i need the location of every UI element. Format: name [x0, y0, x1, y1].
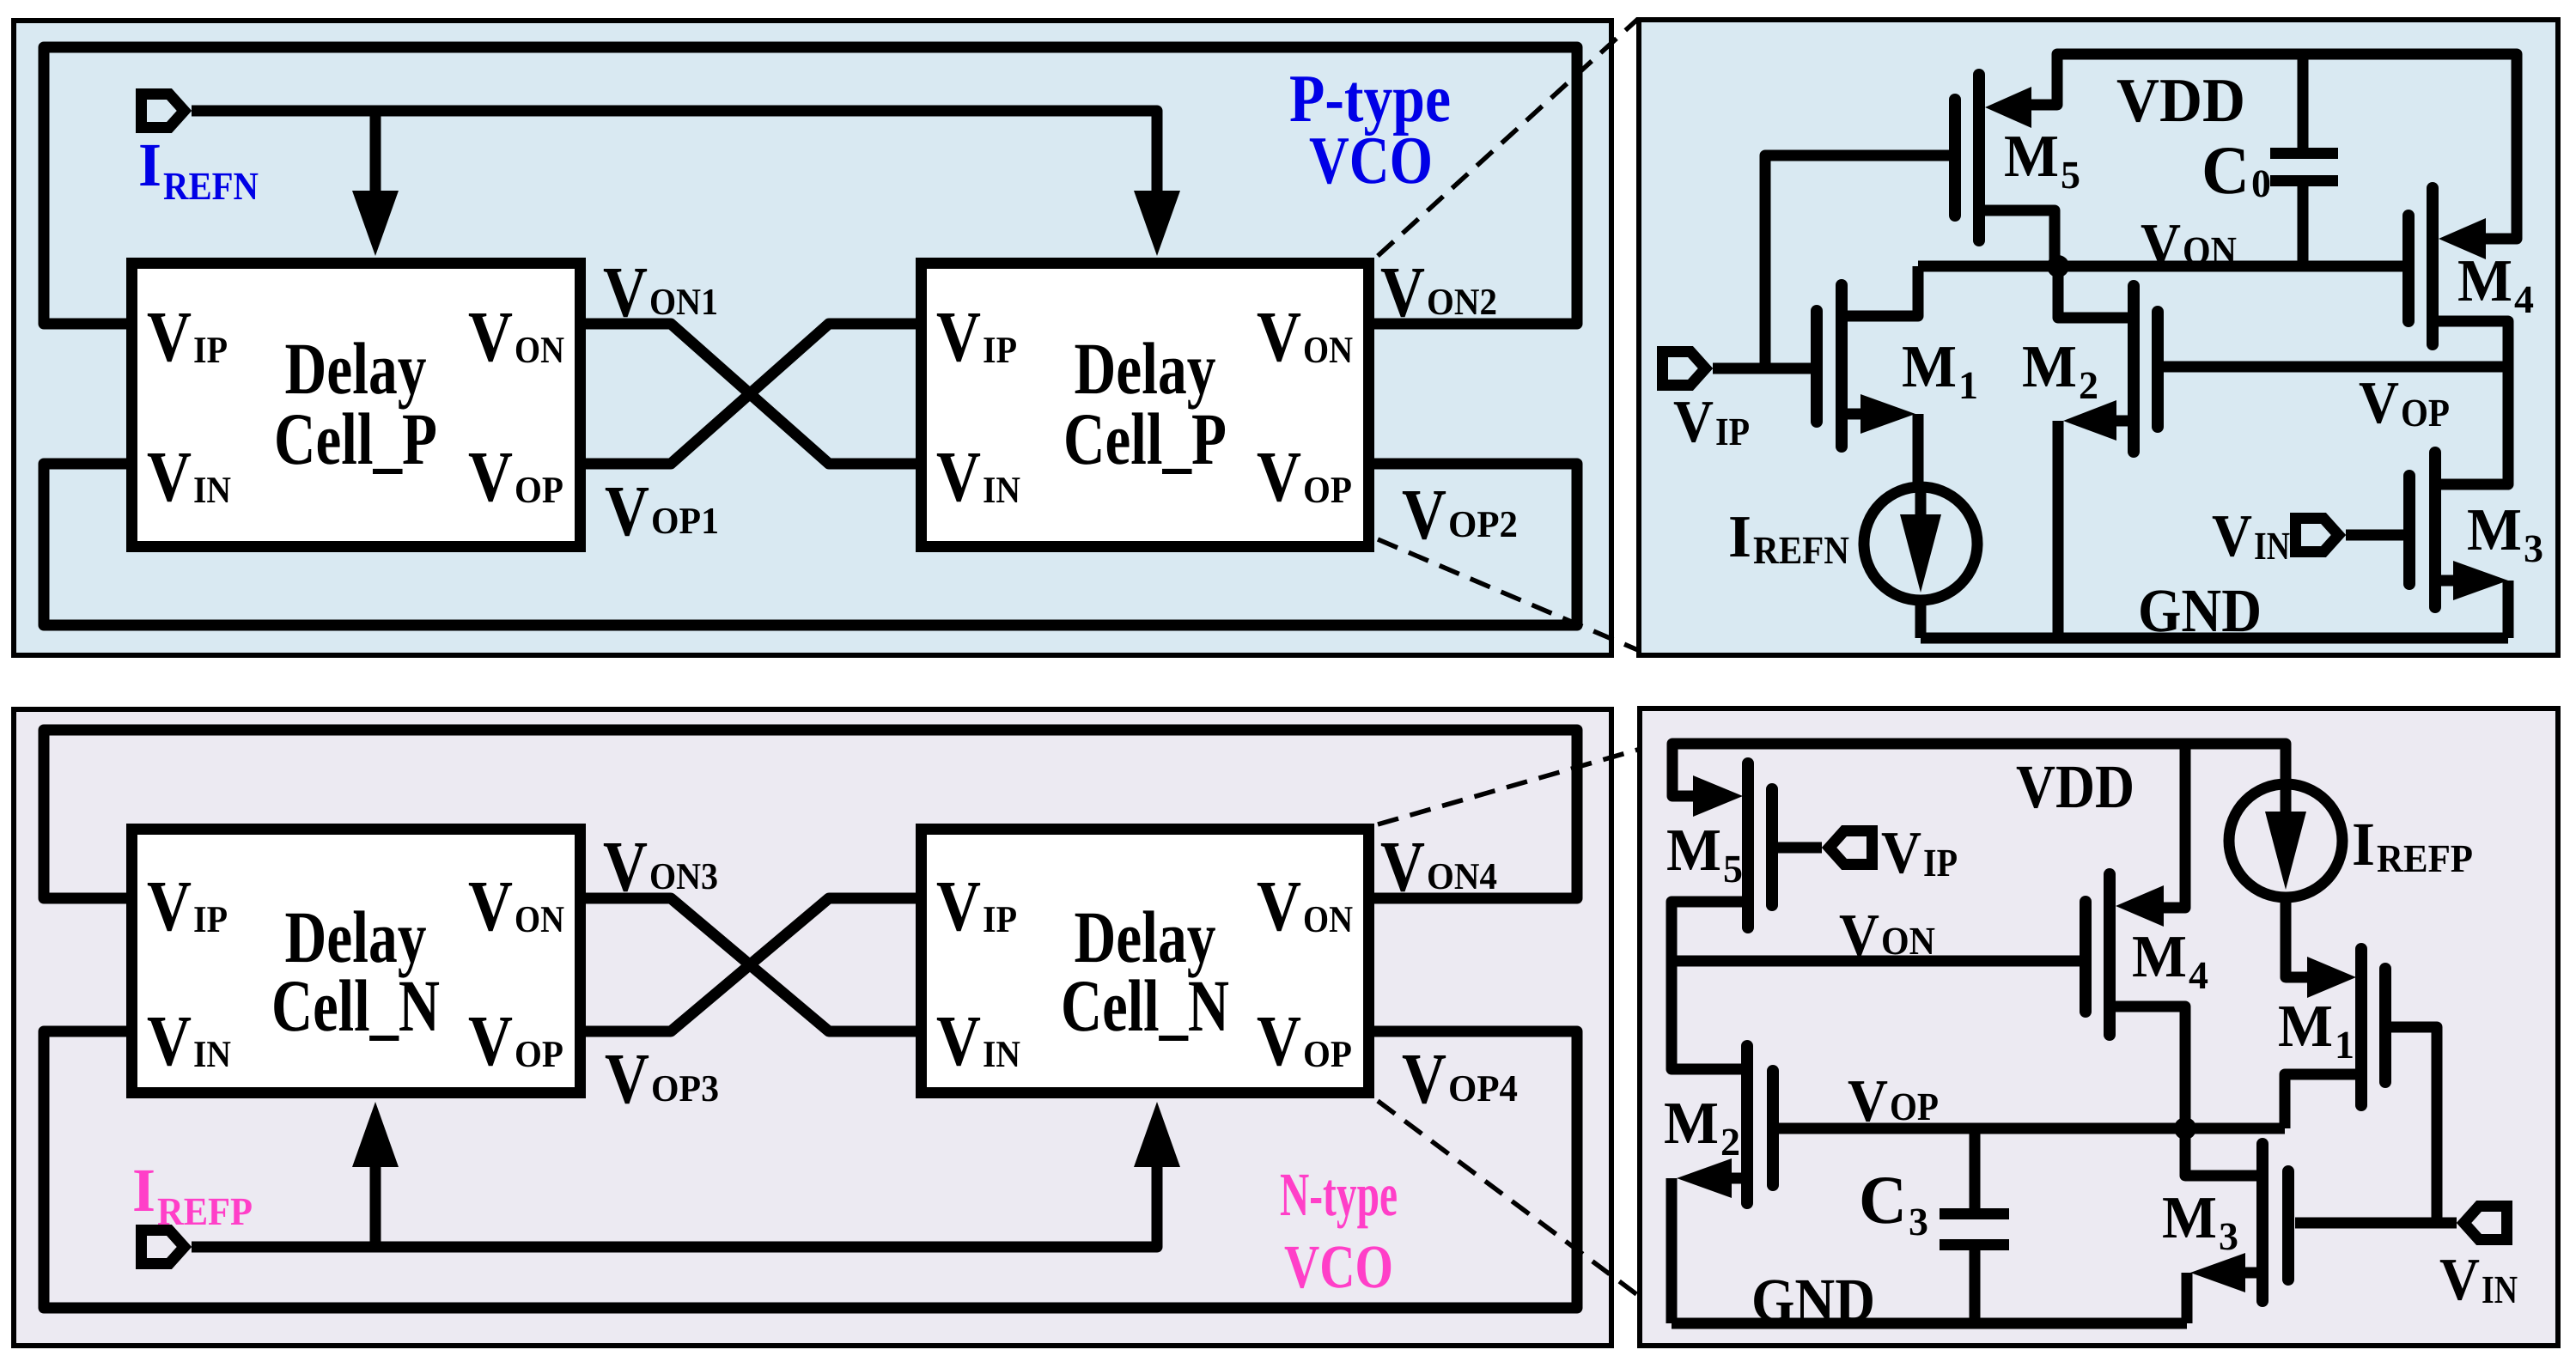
transistor M5 channel bar: [1973, 75, 1985, 240]
transistor M4 channel bar: [2104, 874, 2116, 1035]
svg-text:ON3: ON3: [649, 855, 718, 897]
transistor M4 gate bar: [2402, 216, 2415, 321]
svg-text:C: C: [1859, 1163, 1907, 1238]
svg-text:1: 1: [1958, 363, 1978, 407]
svg-text:V: V: [1257, 1001, 1301, 1081]
svg-text:V: V: [1839, 903, 1879, 969]
svg-text:ON: ON: [1303, 329, 1353, 371]
wire M2 drain to VON: [2058, 266, 2128, 318]
svg-text:VCO: VCO: [1309, 124, 1433, 198]
M1 source arrow: [1860, 394, 1915, 434]
wire VOP net: [1778, 1123, 2285, 1134]
wire IREFN branch to cell 1: [370, 111, 381, 192]
svg-text:REFN: REFN: [1753, 528, 1849, 572]
svg-text:OP: OP: [515, 1033, 563, 1075]
wire IREFP to M1 source: [2286, 897, 2307, 977]
port VIN: [2296, 519, 2339, 552]
svg-text:V: V: [1673, 389, 1714, 455]
transistor M4 gate bar: [2080, 902, 2092, 1012]
M3 source arrow: [2190, 1253, 2245, 1292]
svg-text:V: V: [468, 866, 513, 946]
svg-text:IP: IP: [1923, 841, 1958, 885]
transistor M2 gate bar: [2152, 312, 2164, 427]
M5 source arrow: [1985, 87, 2031, 128]
port VIP: [1663, 352, 1706, 386]
svg-text:V: V: [2141, 212, 2181, 278]
svg-text:GND: GND: [1751, 1266, 1875, 1335]
wire M1 source to IREFN: [1913, 414, 1924, 484]
M5 source arrow: [1693, 775, 1743, 817]
wire IREFN distribution: [192, 111, 1157, 192]
port VIP: [1830, 831, 1873, 865]
svg-text:IP: IP: [983, 329, 1017, 371]
wire M4 drain to M3 drain: [2115, 1006, 2262, 1176]
svg-text:Cell_P: Cell_P: [274, 398, 437, 480]
wire VON2 feedback to VIP1: [44, 47, 1577, 324]
current source IREFN: [1864, 487, 1977, 600]
svg-text:REFP: REFP: [2377, 836, 2473, 880]
transistor M1 channel bar: [1836, 285, 1848, 447]
svg-text:M: M: [2278, 994, 2333, 1060]
dashed zoom line top: [1378, 742, 1665, 824]
svg-text:ON: ON: [515, 329, 564, 371]
svg-text:IN: IN: [193, 1033, 231, 1075]
wire VIN to M3 gate: [2346, 530, 2404, 541]
svg-text:M: M: [2132, 924, 2187, 990]
svg-text:V: V: [1380, 827, 1425, 907]
wire C0 to VON: [2298, 186, 2309, 266]
dashed zoom line top: [1378, 19, 1638, 256]
transistor M1 gate bar: [2379, 969, 2391, 1082]
wire M1 source stub: [1847, 409, 1860, 420]
svg-text:4: 4: [2514, 277, 2534, 321]
transistor M3 gate bar: [2403, 476, 2415, 584]
svg-text:3: 3: [2524, 526, 2543, 570]
svg-text:V: V: [2212, 503, 2252, 569]
svg-text:M: M: [2004, 124, 2059, 190]
wire IREFP distribution: [192, 1165, 1157, 1247]
wire C3 to GND: [1970, 1250, 1981, 1323]
svg-text:ON2: ON2: [1427, 281, 1497, 323]
capacitor C0: [2270, 148, 2338, 159]
transistor M5 channel bar: [1742, 763, 1754, 927]
svg-text:ON: ON: [1303, 898, 1353, 940]
M2 source arrow: [2063, 400, 2116, 441]
svg-text:V: V: [603, 252, 648, 332]
svg-text:OP: OP: [515, 469, 563, 511]
wire VDD branch to M4 source: [2164, 744, 2185, 908]
svg-text:IP: IP: [983, 898, 1017, 940]
transistor M3 gate bar: [2282, 1171, 2294, 1280]
svg-text:OP1: OP1: [651, 500, 719, 542]
wire M3 source to GND: [2503, 581, 2514, 638]
wire VOP net (M2 gate): [2163, 362, 2508, 373]
svg-text:M: M: [2457, 248, 2512, 314]
arrow IREFN into delay cell 2: [1134, 191, 1180, 256]
wire M1 gate to VIN: [2390, 1027, 2437, 1223]
svg-text:V: V: [936, 437, 981, 517]
wire VDD rail: [1672, 744, 2286, 796]
svg-text:V: V: [605, 471, 649, 551]
svg-text:GND: GND: [2138, 576, 2262, 645]
transistor M1 gate bar: [1811, 311, 1823, 422]
dashed zoom line bottom: [1378, 1101, 1673, 1322]
node VON junction: [2047, 255, 2069, 277]
svg-text:M: M: [1902, 334, 1957, 400]
M3 source arrow: [2453, 561, 2508, 600]
svg-text:V: V: [605, 1039, 649, 1119]
wire VON net: [1918, 261, 2403, 272]
wire VON1 cross to VIN2: [586, 324, 916, 464]
svg-text:5: 5: [2061, 153, 2080, 197]
svg-text:M: M: [1666, 818, 1721, 884]
svg-text:IN: IN: [193, 469, 231, 511]
wire VON3 cross: [586, 898, 916, 1031]
svg-text:OP2: OP2: [1448, 503, 1518, 545]
port VIN: [2464, 1207, 2507, 1240]
svg-text:I: I: [138, 131, 161, 199]
wire GND rail: [1921, 633, 2508, 644]
svg-text:ON: ON: [515, 898, 564, 940]
wire VOP1 cross to VIP2: [586, 324, 916, 464]
wire M3 source to GND: [2182, 1273, 2193, 1323]
delay cell 4 (Delay Cell_N): [922, 830, 1369, 1093]
svg-text:0: 0: [2251, 161, 2271, 205]
wire VIN to M3 gate: [2295, 1218, 2457, 1229]
svg-text:IN: IN: [2254, 524, 2290, 568]
svg-text:4: 4: [2189, 953, 2208, 997]
svg-text:M: M: [1664, 1091, 1719, 1157]
svg-text:M: M: [2022, 334, 2077, 400]
transistor M3 channel bar: [2429, 453, 2441, 607]
svg-text:V: V: [1402, 1039, 1446, 1119]
wire VIP to M1 gate: [1713, 363, 1811, 374]
svg-text:2: 2: [2079, 363, 2098, 407]
panel: Delay Cell_P transistor schematic: [1639, 20, 2558, 655]
svg-text:V: V: [603, 827, 648, 907]
svg-text:OP3: OP3: [651, 1067, 719, 1110]
wire M3 source stub: [2440, 575, 2453, 587]
svg-text:ON: ON: [2183, 228, 2237, 272]
transistor M2 channel bar: [1741, 1046, 1753, 1203]
svg-text:M: M: [2467, 497, 2522, 563]
transistor M4 channel bar: [2427, 188, 2439, 344]
svg-text:ON1: ON1: [649, 281, 718, 323]
svg-text:IP: IP: [1715, 410, 1750, 453]
transistor M5 gate bar: [1766, 789, 1778, 905]
port IREFP input: [142, 1231, 185, 1264]
svg-text:VCO: VCO: [1284, 1232, 1393, 1301]
wire GND rail: [1672, 1318, 2187, 1329]
arrow IREFP into delay cell 4: [1134, 1102, 1180, 1167]
svg-text:VDD: VDD: [2016, 752, 2134, 821]
svg-text:I: I: [132, 1156, 155, 1225]
svg-text:REFN: REFN: [163, 164, 259, 208]
svg-text:V: V: [1402, 475, 1446, 555]
M2 source arrow: [1677, 1158, 1732, 1198]
current source IREFP: [2229, 784, 2342, 897]
svg-text:M: M: [2162, 1185, 2217, 1251]
wire VOP3 cross: [586, 898, 916, 1031]
panel: Delay Cell_N transistor schematic: [1640, 708, 2558, 1346]
svg-text:OP: OP: [1890, 1085, 1939, 1128]
svg-text:V: V: [147, 1001, 192, 1081]
wire M2 source to GND: [2053, 421, 2064, 638]
svg-text:OP: OP: [1303, 469, 1352, 511]
svg-text:5: 5: [1723, 847, 1743, 891]
delay cell 1 (Delay Cell_P): [132, 264, 581, 547]
M4 source arrow: [2116, 885, 2164, 927]
svg-text:V: V: [1380, 252, 1425, 332]
transistor M2 gate bar: [1767, 1071, 1779, 1185]
dashed zoom line bottom: [1378, 539, 1638, 650]
wire M3 source stub: [2245, 1268, 2257, 1279]
panel: P-type VCO block diagram: [14, 21, 1611, 655]
svg-text:I: I: [2352, 810, 2375, 879]
wire M5 drain to VON: [1985, 210, 2055, 264]
svg-text:V: V: [147, 437, 192, 517]
svg-text:I: I: [1728, 504, 1751, 570]
wire IREFN to GND: [1915, 600, 1927, 638]
svg-text:V: V: [1257, 297, 1301, 377]
delay cell 3 (Delay Cell_N): [132, 830, 581, 1093]
svg-text:Cell_N: Cell_N: [1061, 964, 1229, 1047]
M1 source arrow: [2307, 957, 2356, 998]
svg-text:IN: IN: [2482, 1268, 2518, 1311]
transistor M5 gate bar: [1949, 100, 1961, 216]
M4 source arrow: [2439, 218, 2486, 259]
wire VDD to C0: [2298, 54, 2309, 148]
svg-text:VDD: VDD: [2116, 65, 2245, 135]
svg-text:ON4: ON4: [1427, 855, 1497, 897]
svg-text:ON: ON: [1881, 919, 1935, 963]
svg-text:V: V: [468, 1001, 513, 1081]
wire M1 drain to VON: [1847, 266, 1918, 316]
svg-text:V: V: [936, 866, 981, 946]
wire M2 source to GND: [1666, 1178, 1678, 1323]
wire M5 gate to VIP port: [1777, 842, 1822, 854]
svg-text:V: V: [1881, 820, 1921, 886]
svg-text:OP: OP: [1303, 1033, 1352, 1075]
svg-text:N-type: N-type: [1280, 1160, 1398, 1229]
wire VON net: [1672, 956, 2080, 967]
svg-text:Cell_N: Cell_N: [271, 964, 440, 1047]
svg-text:3: 3: [1909, 1200, 1928, 1243]
panel: N-type VCO block diagram: [14, 709, 1611, 1346]
arrow IREFN into delay cell 1: [352, 191, 399, 256]
svg-text:OP4: OP4: [1448, 1067, 1518, 1110]
wire M2 source stub: [1732, 1173, 1742, 1184]
svg-text:V: V: [936, 1001, 981, 1081]
node VOP junction: [2174, 1117, 2196, 1140]
transistor M3 channel bar: [2256, 1144, 2268, 1301]
svg-text:V: V: [468, 437, 513, 517]
wire VOP2 feedback to VIN1: [44, 464, 1577, 625]
svg-text:IP: IP: [193, 898, 228, 940]
svg-text:V: V: [2359, 370, 2399, 436]
wire M5 drain to M2 drain: [1672, 902, 1743, 1069]
svg-text:V: V: [1257, 866, 1301, 946]
svg-text:V: V: [2439, 1247, 2480, 1313]
wire M5 gate to VIP: [1765, 155, 1950, 368]
wire IREFP branch to cell 3: [370, 1165, 381, 1247]
transistor M2 channel bar: [2128, 286, 2140, 452]
wire VOP to C3: [1970, 1128, 1981, 1208]
svg-text:IP: IP: [193, 329, 228, 371]
svg-text:V: V: [1257, 437, 1301, 517]
transistor M1 channel bar: [2355, 949, 2367, 1105]
svg-text:OP: OP: [2401, 391, 2450, 435]
svg-text:Cell_P: Cell_P: [1063, 398, 1227, 480]
svg-text:V: V: [147, 297, 192, 377]
wire VON4 feedback to VIP3: [44, 730, 1577, 898]
svg-text:V: V: [1848, 1068, 1888, 1134]
wire M1 drain to VOP: [2285, 1074, 2356, 1128]
svg-text:V: V: [468, 297, 513, 377]
svg-text:V: V: [147, 866, 192, 946]
svg-text:IN: IN: [983, 469, 1020, 511]
svg-text:REFP: REFP: [157, 1189, 253, 1233]
wire M4 drain to M3 drain: [2438, 321, 2508, 484]
wire M2 source stub: [2116, 416, 2128, 427]
wire VOP4 feedback to VIN3: [44, 1031, 1577, 1308]
port IREFN input: [142, 94, 185, 128]
svg-text:3: 3: [2219, 1214, 2238, 1258]
wire VDD rail: [2031, 54, 2517, 239]
svg-text:C: C: [2201, 133, 2250, 209]
svg-text:1: 1: [2335, 1023, 2354, 1067]
svg-text:2: 2: [1720, 1120, 1740, 1164]
delay cell 2 (Delay Cell_P): [922, 264, 1369, 547]
svg-text:IN: IN: [983, 1033, 1020, 1075]
svg-text:V: V: [936, 297, 981, 377]
arrow IREFP into delay cell 3: [352, 1102, 399, 1167]
